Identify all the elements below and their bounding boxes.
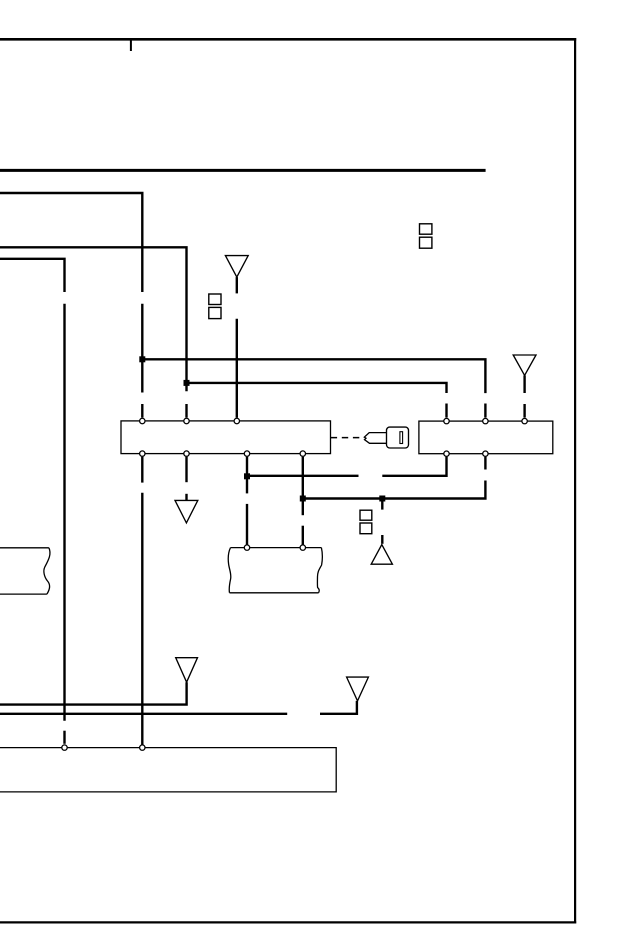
- wire L1 riser lower segment with junction at node D1: [141, 304, 143, 393]
- wire L2 from left edge to vertical riser: [0, 247, 187, 391]
- wire long riser from J1 pin 4 to bottom module: [141, 493, 143, 745]
- callout boxes pair P1: [209, 294, 221, 319]
- ground symbol G1: [175, 500, 198, 523]
- connector J1 bottom pin 6: [244, 451, 249, 456]
- antenna symbol AN1: [225, 256, 248, 278]
- antenna AN1 lead lower segment to connector J1 pin 3: [236, 319, 238, 418]
- page border bottom: [0, 921, 576, 923]
- connector J2 top pin 3: [522, 418, 527, 423]
- wire L3 long riser down to bottom module: [63, 304, 65, 721]
- antenna AN1 lead upper segment: [236, 277, 238, 293]
- antenna symbol AN4: [347, 677, 369, 701]
- wire C from left edge up to antenna AN3: [0, 682, 187, 704]
- wire L3 from left edge to long vertical riser: [0, 259, 65, 292]
- connector J1 bottom pin 7: [300, 451, 305, 456]
- module M3 pin 2: [300, 545, 305, 550]
- wire from J1 pin 7 down segment with node D4: [302, 457, 304, 516]
- junction dot D4: [300, 496, 306, 502]
- wire L1 from left edge to vertical riser: [0, 193, 142, 292]
- wire L2 riser dash above connector J1 pin 2: [185, 404, 187, 418]
- module M3 pin 1: [244, 545, 249, 550]
- junction dot D2: [184, 380, 190, 386]
- bottom module M4 pin 1: [62, 745, 67, 750]
- antenna AN2 lead upper segment: [523, 375, 525, 393]
- connector J2 bottom pin 4: [444, 451, 449, 456]
- wire from J1 pin 7 lower segment to module M3: [302, 526, 304, 545]
- module M3 torn box: [228, 548, 322, 593]
- wire L1 riser dash above connector J1 pin 1: [141, 404, 143, 418]
- tick mark on top border: [130, 41, 132, 52]
- wire from J1 pin 6 down segment with node D3: [246, 457, 248, 494]
- key switch symbol blade: [364, 433, 387, 444]
- wire W1 drop dash above connector J2 pin 2: [484, 404, 486, 418]
- branch from node D5 down segment: [381, 499, 383, 510]
- junction dot D3: [244, 473, 250, 479]
- wire from J1 pin 5 down segment: [185, 457, 187, 483]
- key switch slot: [400, 432, 403, 444]
- wire W1 from node D1 to connector J2 pin 2: [142, 359, 485, 393]
- page border top: [0, 38, 576, 41]
- connector J1 top pin 1: [140, 418, 145, 423]
- wire from J1 pin 4 down segment: [141, 457, 143, 483]
- wire W2 from node D2 to connector J2 pin 1: [187, 383, 447, 393]
- module M2 torn box at left edge: [0, 548, 50, 594]
- wire from J1 pin 6 lower segment to module M3: [246, 504, 248, 545]
- wire L3 riser dash above bottom module pin: [63, 731, 65, 744]
- connector J2 top pin 2: [483, 418, 488, 423]
- antenna AN2 lead dash above connector J2 pin 3: [523, 404, 525, 418]
- antenna symbol AN2: [513, 355, 536, 375]
- callout boxes pair P3: [360, 510, 372, 534]
- wire B upper dash below J2 pin 5: [484, 457, 486, 470]
- antenna symbol AN3: [176, 658, 198, 683]
- callout boxes pair P2: [420, 224, 432, 248]
- connector J2 bottom pin 5: [483, 451, 488, 456]
- bottom module M4 box: [0, 748, 336, 792]
- connector J1 body: [121, 421, 331, 454]
- wire A segment to connector J2 pin 4: [382, 457, 446, 476]
- wire D segment up to antenna AN4: [320, 701, 357, 714]
- page border right: [574, 38, 576, 923]
- wire A segment from node D3: [247, 475, 359, 477]
- connector J1 top pin 2: [184, 418, 189, 423]
- connector J2 body: [419, 421, 553, 454]
- branch dash above arrow T1: [381, 535, 383, 544]
- wire B segment from node D4 to connector J2 pin 5: [303, 481, 486, 499]
- key switch symbol head: [387, 427, 409, 448]
- wire dash above ground G1: [185, 494, 187, 501]
- header rule: [0, 169, 486, 172]
- connector J2 top pin 1: [444, 418, 449, 423]
- wire D segment from left edge: [0, 713, 287, 715]
- junction dot D5 on wire B: [379, 496, 385, 502]
- wire W2 drop dash above connector J2 pin 1: [445, 404, 447, 418]
- junction dot D1: [139, 356, 145, 362]
- page arrow symbol T1: [371, 545, 392, 565]
- dashed link from connector J1 to key switch: [331, 437, 364, 439]
- connector J1 bottom pin 4: [140, 451, 145, 456]
- connector J1 top pin 3: [234, 418, 239, 423]
- bottom module M4 pin 2: [140, 745, 145, 750]
- connector J1 bottom pin 5: [184, 451, 189, 456]
